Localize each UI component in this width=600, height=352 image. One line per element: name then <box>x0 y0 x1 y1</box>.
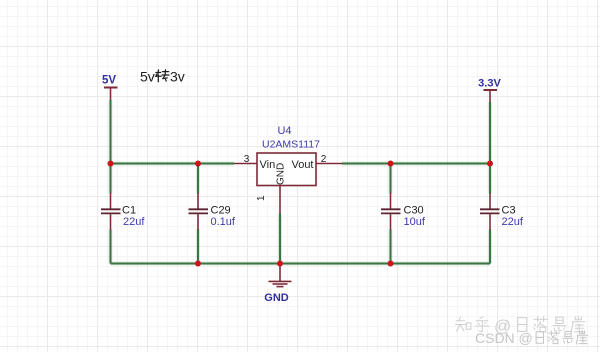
wire top rail (5V net) <box>111 162 235 166</box>
svg-text:GND: GND <box>276 163 287 185</box>
svg-text:3.3V: 3.3V <box>478 78 501 90</box>
capacitor C3 22uf <box>480 193 524 230</box>
wire bottom rail (GND net) <box>111 262 491 266</box>
capacitor C29 0.1uf <box>189 193 236 230</box>
U4 pin 2 (Vout) <box>316 154 342 165</box>
svg-text:2: 2 <box>321 154 327 165</box>
capacitor C30 10uf <box>381 193 426 230</box>
svg-text:C30: C30 <box>404 205 424 217</box>
U4 pin 3 (Vin) <box>234 154 257 165</box>
svg-text:CSDN @: CSDN @ <box>475 330 533 346</box>
watermark line 2 CSDN @日落悬崖 <box>475 330 588 346</box>
junction node C30 top <box>388 161 394 167</box>
svg-text:C3: C3 <box>502 205 516 217</box>
wire C1 top <box>109 164 113 194</box>
junction node 3.3V/C3 <box>487 161 493 167</box>
wire C3 top <box>488 164 492 194</box>
junction node 5V/C1 <box>108 161 114 167</box>
svg-text:GND: GND <box>264 292 289 304</box>
junction node C29 bottom <box>195 261 201 267</box>
svg-text:0.1uf: 0.1uf <box>211 216 236 228</box>
wire U4 GND to bottom rail <box>278 214 282 264</box>
capacitor C1 22uf <box>101 193 145 230</box>
wire C29 top <box>196 164 200 194</box>
U4 pin 1 (GND) <box>256 186 280 214</box>
wire C29 bottom <box>196 230 200 264</box>
wire C30 bottom <box>389 230 393 264</box>
svg-text:1: 1 <box>256 195 267 201</box>
svg-text:3v: 3v <box>170 69 185 85</box>
title 5v转3v <box>140 69 185 85</box>
wire output rail (3.3V net) <box>342 162 490 166</box>
wire 3.3V riser <box>488 102 492 164</box>
regulator U4 U2AMS1117 <box>257 125 320 186</box>
watermark line 1 知乎 @日落悬崖 <box>456 316 585 336</box>
svg-text:C1: C1 <box>122 205 136 217</box>
wire C30 top <box>389 164 393 194</box>
svg-text:5V: 5V <box>102 75 116 87</box>
junction node GND <box>277 261 283 267</box>
ground symbol GND <box>264 264 291 305</box>
wire 5V riser <box>109 100 113 164</box>
svg-text:C29: C29 <box>211 205 231 217</box>
junction node C30 bottom <box>388 261 394 267</box>
power flag 5V <box>102 75 118 101</box>
junction node C29 top <box>195 161 201 167</box>
wire C3 bottom <box>488 230 492 264</box>
svg-text:22uf: 22uf <box>502 216 524 228</box>
power flag 3.3V <box>478 78 501 103</box>
svg-text:22uf: 22uf <box>123 216 145 228</box>
wire C1 bottom <box>109 230 113 264</box>
svg-text:Vin: Vin <box>260 159 276 171</box>
svg-text:5v: 5v <box>140 69 155 85</box>
svg-text:Vout: Vout <box>291 159 313 171</box>
svg-text:U2AMS1117: U2AMS1117 <box>262 139 320 151</box>
svg-text:U4: U4 <box>277 125 291 137</box>
svg-text:3: 3 <box>244 154 250 165</box>
svg-text:10uf: 10uf <box>404 216 426 228</box>
